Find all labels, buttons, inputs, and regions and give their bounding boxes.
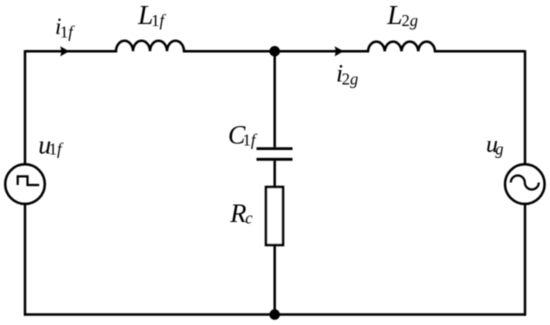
svg-text:L: L <box>386 0 402 30</box>
svg-text:1f: 1f <box>151 11 166 30</box>
svg-text:2g: 2g <box>402 11 419 30</box>
svg-text:1f: 1f <box>243 131 258 150</box>
svg-text:c: c <box>245 208 253 227</box>
svg-text:2g: 2g <box>342 69 359 88</box>
svg-text:g: g <box>495 140 503 159</box>
svg-text:1f: 1f <box>60 22 75 41</box>
svg-text:1f: 1f <box>49 139 64 158</box>
svg-text:R: R <box>229 198 246 228</box>
